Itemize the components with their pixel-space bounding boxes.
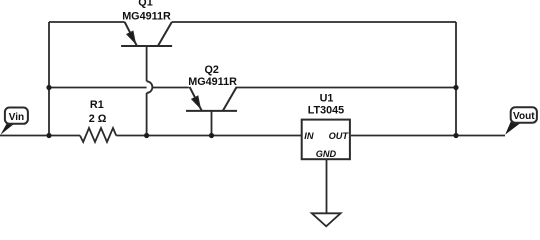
svg-text:Vin: Vin <box>9 112 24 123</box>
wire Q1 base lower <box>146 93 148 136</box>
junction node left main <box>46 133 51 138</box>
wire hop over Q2 row <box>147 81 153 93</box>
junction node left Q2 row <box>46 85 51 90</box>
wire Q1 base upper <box>146 46 148 81</box>
transistor Q2 <box>186 87 237 111</box>
junction node right main <box>453 133 458 138</box>
wire top row left <box>49 21 125 23</box>
svg-text:GND: GND <box>316 149 337 159</box>
svg-text:MG4911R: MG4911R <box>188 76 237 88</box>
wire Q2 row left <box>49 87 189 89</box>
junction node Q1 base <box>144 133 149 138</box>
svg-text:LT3045: LT3045 <box>308 104 344 116</box>
svg-text:Vout: Vout <box>513 111 535 122</box>
node Vin tag <box>1 108 28 135</box>
wire U1 GND <box>326 159 328 214</box>
svg-text:2 Ω: 2 Ω <box>89 113 107 125</box>
svg-text:OUT: OUT <box>329 131 350 141</box>
junction node Q2 base <box>209 133 214 138</box>
node Vout tag <box>505 107 537 134</box>
svg-text:U1: U1 <box>320 93 334 105</box>
wire Q2 row right <box>237 87 457 89</box>
ground <box>312 213 341 226</box>
svg-text:R1: R1 <box>90 99 104 111</box>
svg-text:MG4911R: MG4911R <box>122 10 171 22</box>
wire U1 OUT to Vout <box>351 135 505 137</box>
IC U1 body <box>302 120 350 160</box>
junction node right Q2 row <box>453 85 458 90</box>
svg-text:IN: IN <box>304 131 314 141</box>
svg-text:Q2: Q2 <box>204 64 218 76</box>
wire top row right <box>172 21 456 23</box>
wire right vertical <box>455 22 457 136</box>
svg-text:Q1: Q1 <box>138 0 152 9</box>
wire Vin to R1 <box>0 135 80 137</box>
wire Q2 base <box>211 111 213 136</box>
wire R1 to U1 IN <box>116 135 302 137</box>
transistor Q1 <box>121 22 172 46</box>
wire left vertical <box>48 22 50 136</box>
resistor R1 <box>80 128 116 142</box>
